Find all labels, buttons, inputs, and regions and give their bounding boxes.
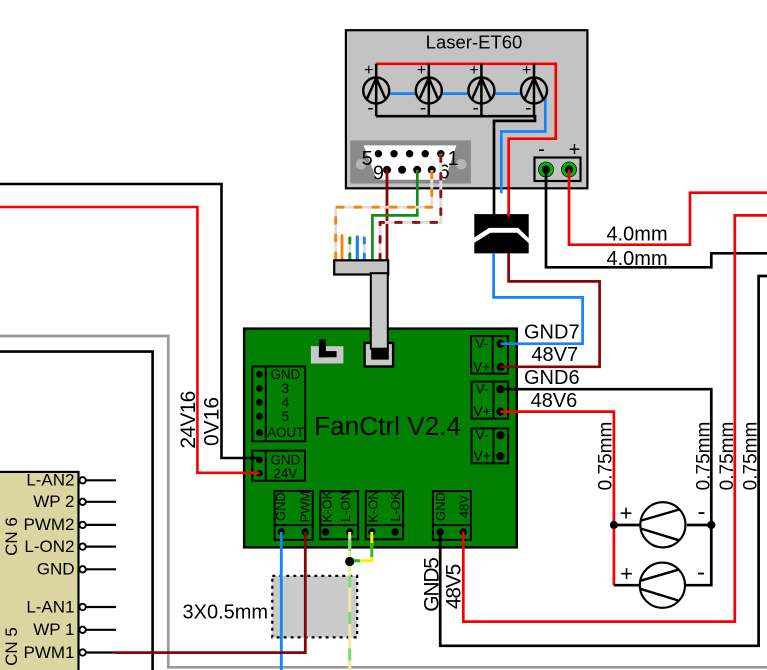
cable marker 3X0.5mm dashed box	[272, 576, 357, 638]
junction node 48V6 fans	[610, 521, 618, 529]
wire black 0V16	[0, 184, 260, 458]
board socket J2	[365, 343, 394, 367]
TB1 plus socket	[561, 162, 577, 178]
wire black fan B2 plus stub	[614, 584, 640, 587]
svg-text:K-ON: K-ON	[365, 490, 380, 523]
terminal TB-48 GND/48V	[433, 491, 471, 540]
svg-text:0.75mm: 0.75mm	[595, 422, 616, 491]
svg-text:+: +	[569, 139, 581, 161]
wire red TB1 plus 4.0mm	[569, 170, 767, 245]
svg-text:48V6: 48V6	[531, 390, 578, 412]
J1 pin 4	[390, 150, 397, 157]
wire red 48V6	[500, 412, 614, 586]
CN pin L-AN2	[79, 477, 116, 483]
svg-text:+: +	[620, 501, 633, 526]
wire black fan return bus	[376, 116, 535, 214]
svg-text:-: -	[367, 98, 373, 119]
wire green J1 pin7	[372, 170, 417, 261]
svg-text:V-: V-	[475, 381, 489, 397]
wire orange dashed J1 pin6	[336, 170, 432, 261]
wire maroon J1 pin9	[386, 170, 389, 262]
svg-text:-: -	[697, 559, 705, 586]
terminal TB-K2 K-ON/L-OK	[366, 491, 403, 539]
wire yellow K-ON link	[352, 532, 372, 561]
svg-text:L-ON: L-ON	[338, 491, 353, 522]
svg-text:GND6: GND6	[524, 367, 580, 389]
wire black fan B1 plus stub	[614, 524, 641, 527]
J1 pin 5	[375, 150, 382, 157]
svg-text:-: -	[420, 98, 426, 119]
svg-text:L-AN1: L-AN1	[26, 597, 74, 616]
terminal TB-K1 K-OK/L-ON	[320, 491, 358, 539]
wire stub orange unused	[341, 236, 344, 262]
cable stem into J2	[371, 273, 388, 349]
fan B2	[640, 563, 685, 608]
fan M1	[363, 64, 389, 116]
J1 pin 3	[406, 150, 413, 157]
svg-text:4.0mm: 4.0mm	[607, 248, 668, 270]
CN pin GND	[79, 566, 116, 572]
fan M2	[416, 64, 442, 116]
junction node GND6 fans	[707, 521, 715, 529]
svg-text:24V16: 24V16	[177, 391, 200, 448]
CN pin WP 1	[79, 627, 116, 633]
CN pin WP 2	[79, 499, 116, 505]
wire maroon dashed J1 pin1	[380, 154, 441, 261]
svg-text:GND: GND	[37, 560, 75, 579]
enclosure Laser-ET60	[346, 30, 588, 188]
connector CN box	[0, 472, 79, 670]
CN pin L-ON2	[79, 543, 116, 549]
svg-text:48V7: 48V7	[531, 344, 578, 366]
board pad with L mark	[311, 339, 344, 363]
svg-text:AOUT: AOUT	[267, 425, 304, 440]
svg-text:3X0.5mm: 3X0.5mm	[183, 602, 269, 624]
fuse XT60 connector F1 top	[474, 214, 528, 238]
J1 pin 1	[437, 150, 444, 157]
svg-text:4: 4	[282, 395, 290, 410]
svg-text:V+: V+	[473, 448, 491, 464]
junction node K-ON L-ON	[345, 557, 354, 566]
J1 pin 8	[398, 166, 406, 174]
svg-text:5: 5	[362, 148, 373, 170]
svg-text:9: 9	[373, 163, 384, 185]
svg-text:0.75mm: 0.75mm	[694, 422, 715, 491]
J1 pin 9	[383, 166, 391, 174]
wire red 48V5	[463, 215, 767, 621]
header H1 GND/3/4/5/AOUT	[252, 366, 305, 441]
wire black TB1 minus 4.0mm	[546, 170, 767, 268]
svg-text:WP 2: WP 2	[33, 492, 74, 511]
svg-text:GND: GND	[433, 492, 448, 521]
svg-text:-: -	[473, 98, 479, 119]
svg-text:48V: 48V	[456, 495, 471, 518]
wire black GND5	[440, 276, 767, 646]
box outline left device	[0, 352, 153, 670]
terminal T24 GND/24V	[252, 451, 305, 481]
wire blue fan bus	[376, 94, 545, 194]
fan M4	[521, 64, 547, 116]
svg-text:+: +	[364, 62, 373, 79]
svg-text:5: 5	[282, 409, 289, 424]
svg-text:3: 3	[282, 381, 289, 396]
svg-text:+: +	[620, 561, 633, 586]
CN pin PWM1	[79, 649, 116, 655]
svg-text:Laser-ET60: Laser-ET60	[426, 32, 523, 53]
fuse XT60 connector F1 body	[474, 233, 528, 254]
terminal TB-PWM GND/PWM	[275, 491, 313, 540]
terminal block TB1	[535, 158, 581, 182]
svg-text:CN 5: CN 5	[2, 627, 21, 666]
TB1 minus socket	[538, 162, 554, 178]
J1 D-sub face	[364, 145, 457, 179]
svg-text:48V5: 48V5	[442, 564, 465, 609]
J1 mounting hole left	[356, 159, 367, 170]
J1 pin 2	[422, 150, 429, 157]
board FanCtrl V2.4 U1	[244, 329, 517, 548]
wire black GND6	[500, 389, 711, 585]
svg-text:-: -	[525, 98, 531, 119]
svg-text:PWM2: PWM2	[24, 515, 75, 534]
connector J1 DB9 panel	[350, 140, 471, 183]
svg-text:GND: GND	[273, 492, 288, 521]
svg-text:GND5: GND5	[421, 558, 444, 612]
svg-text:PWM: PWM	[297, 491, 312, 523]
svg-text:-: -	[698, 499, 706, 526]
svg-text:V+: V+	[473, 359, 491, 375]
svg-text:L-OK: L-OK	[388, 491, 403, 522]
svg-text:-: -	[538, 139, 545, 161]
svg-text:+: +	[417, 62, 426, 79]
terminal TV1 V-/V+ top	[471, 336, 508, 374]
wire red tip into F1	[507, 211, 510, 217]
svg-text:4.0mm: 4.0mm	[607, 223, 668, 245]
wire maroon PWM to PWM1	[115, 532, 305, 653]
svg-text:PWM1: PWM1	[24, 643, 75, 662]
wire red fan supply bus	[376, 64, 556, 217]
svg-text:L-AN2: L-AN2	[26, 471, 74, 490]
svg-text:GND7: GND7	[524, 322, 580, 344]
svg-text:+: +	[522, 62, 531, 79]
svg-text:FanCtrl V2.4: FanCtrl V2.4	[314, 411, 461, 441]
svg-text:+: +	[469, 62, 478, 79]
wire blue GND PWM cable	[280, 532, 283, 670]
wire stub blue unused 1	[356, 237, 359, 261]
terminal TV3 V-/V+ bottom	[472, 428, 509, 463]
svg-text:CN 6: CN 6	[2, 517, 21, 556]
svg-text:L-ON2: L-ON2	[24, 537, 74, 556]
wire blue F1 to V- GND7	[494, 253, 583, 344]
svg-text:V+: V+	[473, 403, 491, 419]
CN pin L-AN1	[79, 604, 116, 610]
wire black fan B1 minus stub	[687, 524, 711, 527]
wire red 24V16	[0, 207, 260, 473]
svg-text:WP 1: WP 1	[33, 620, 74, 639]
svg-text:24V: 24V	[273, 466, 297, 481]
wire maroon F1 to V+ 48V7	[501, 253, 600, 367]
J1 mounting hole right	[456, 159, 467, 170]
CN pin PWM2	[79, 522, 116, 528]
svg-text:0V16: 0V16	[201, 397, 224, 446]
svg-text:V-: V-	[475, 335, 489, 351]
terminal TV2 V-/V+ middle	[472, 382, 509, 419]
wire gray shield	[0, 336, 767, 667]
svg-text:V-: V-	[475, 427, 489, 443]
svg-text:K-OK: K-OK	[319, 490, 334, 522]
svg-text:GND: GND	[271, 367, 301, 382]
J1 pin 6	[428, 166, 436, 174]
wire stub blue unused 2	[363, 237, 366, 262]
wire striped L-ON	[348, 532, 351, 670]
fan B1	[640, 502, 685, 547]
wire stub green unused	[348, 237, 351, 262]
connector P1 cable header	[334, 260, 388, 274]
fan M3	[468, 64, 494, 116]
J1 pin 7	[413, 166, 421, 174]
